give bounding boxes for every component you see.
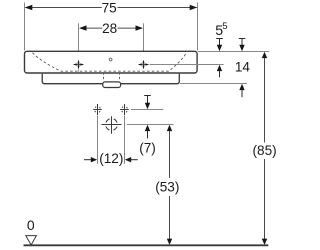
dimension 53 label xyxy=(155,180,179,195)
svg-text:28: 28 xyxy=(102,21,117,36)
dimension 7 label xyxy=(139,141,156,156)
dimension 28 label xyxy=(102,21,117,36)
dimension 85 label xyxy=(253,143,277,158)
washbasin body outline xyxy=(25,51,198,73)
dimension 5.5 label xyxy=(215,21,227,39)
washbasin lower body xyxy=(42,74,179,84)
dimension 28 extension line right xyxy=(143,23,145,60)
datum zero label xyxy=(27,217,35,233)
reference line drain extended xyxy=(127,124,174,126)
reference line basin top extended xyxy=(198,51,270,53)
tap hole symbol right xyxy=(138,60,148,68)
trap cover box xyxy=(103,82,121,88)
dimension 12 right arrow xyxy=(125,157,138,162)
reference line fixing holes extended xyxy=(131,109,163,111)
dimension 12 extension line left xyxy=(97,116,99,164)
dimension 14 bottom arrow xyxy=(239,84,244,98)
tap hole symbol left xyxy=(73,60,83,72)
dimension 53 line xyxy=(167,125,172,245)
fixing hole mark left xyxy=(93,104,102,115)
datum triangle xyxy=(26,236,37,245)
dimension 7 bottom arrow xyxy=(145,125,150,139)
drain hidden lines xyxy=(104,72,120,81)
floor line xyxy=(24,244,269,246)
svg-text:75: 75 xyxy=(102,0,117,15)
dimension 85 line xyxy=(262,52,267,245)
svg-text:(53): (53) xyxy=(155,180,179,195)
dimension 5.5 top arrow xyxy=(216,39,223,52)
dimension 7 top arrow xyxy=(144,96,151,110)
fixing hole mark right xyxy=(120,104,129,115)
reference line fixing height xyxy=(150,64,224,66)
dimension 28 extension line left xyxy=(78,23,80,60)
svg-text:(85): (85) xyxy=(253,143,277,158)
reference line lower body bottom extended xyxy=(180,83,247,85)
basin bowl hidden contour xyxy=(33,53,187,72)
dimension 75 extension line left xyxy=(24,3,26,51)
drain symbol xyxy=(102,116,122,134)
dimension 75 line and arrows xyxy=(25,5,197,10)
svg-text:0: 0 xyxy=(27,217,35,233)
dimension 5.5 bottom arrow xyxy=(217,65,222,78)
dimension 28 line and arrows xyxy=(79,25,143,30)
dimension 75 extension line right xyxy=(197,3,199,51)
dimension 14 label xyxy=(235,59,251,74)
dimension 75 label xyxy=(102,0,117,15)
dimension 12 extension line right xyxy=(124,116,126,164)
dimension 12 left arrow xyxy=(84,157,97,162)
svg-text:14: 14 xyxy=(235,59,251,74)
svg-text:5: 5 xyxy=(222,21,227,32)
svg-text:(12): (12) xyxy=(99,151,123,166)
dimension 12 label xyxy=(99,151,123,166)
basin center mark xyxy=(109,58,112,61)
svg-text:(7): (7) xyxy=(139,141,156,156)
dimension 14 top arrow xyxy=(239,39,246,52)
